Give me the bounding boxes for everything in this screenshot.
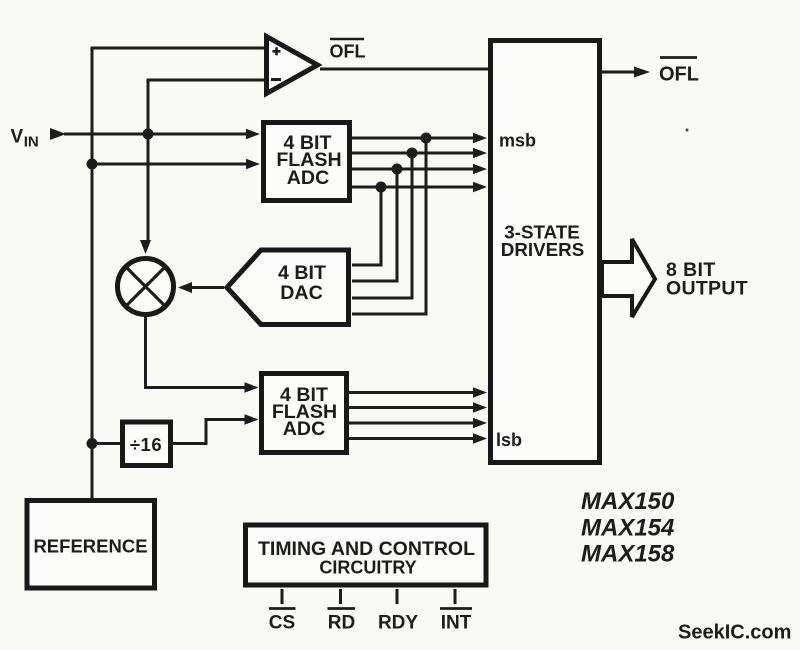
svg-text:msb: msb: [499, 131, 536, 151]
svg-text:REFERENCE: REFERENCE: [33, 536, 147, 557]
svg-text:4 BIT: 4 BIT: [278, 262, 326, 284]
svg-text:MAX154: MAX154: [581, 515, 674, 542]
svg-text:DRIVERS: DRIVERS: [501, 239, 585, 260]
svg-text:÷16: ÷16: [130, 434, 162, 455]
svg-text:DAC: DAC: [280, 282, 322, 304]
svg-text:OFL: OFL: [659, 64, 699, 86]
svg-text:SeekIC.com: SeekIC.com: [678, 622, 791, 644]
svg-text:lsb: lsb: [496, 430, 522, 450]
svg-text:OFL: OFL: [330, 42, 366, 62]
svg-text:CIRCUITRY: CIRCUITRY: [319, 557, 416, 577]
svg-text:MAX150: MAX150: [581, 488, 675, 515]
svg-text:INT: INT: [441, 613, 472, 634]
svg-text:RD: RD: [328, 613, 355, 634]
svg-text:ADC: ADC: [287, 167, 329, 189]
svg-text:CS: CS: [269, 613, 295, 634]
svg-text:OUTPUT: OUTPUT: [666, 278, 748, 300]
svg-text:ADC: ADC: [283, 418, 325, 440]
svg-text:RDY: RDY: [378, 613, 418, 634]
svg-text:MAX158: MAX158: [581, 541, 675, 568]
